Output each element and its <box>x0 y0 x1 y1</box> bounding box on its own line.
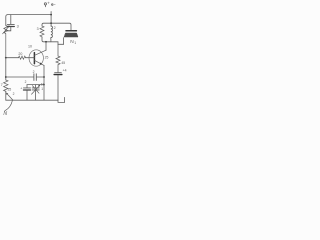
svg-text:3: 3 <box>17 25 19 29</box>
variable inductor L1 on left rail <box>4 26 8 58</box>
wire emitter bypass net <box>6 76 34 78</box>
svg-text:2: 2 <box>33 70 35 74</box>
variable capacitor C4 arrow <box>32 86 40 94</box>
svg-text:25: 25 <box>8 88 12 92</box>
wire battery negative lead <box>50 12 52 27</box>
transistor Q1 collector diagonal <box>35 50 46 55</box>
wire left rail upper <box>6 15 8 26</box>
svg-text:+: + <box>20 86 22 90</box>
capacitor C1 plates <box>7 23 14 25</box>
resistor R3 inline base <box>19 56 26 59</box>
arrow of variable L1 <box>3 27 9 34</box>
wire collector top net <box>42 23 71 30</box>
svg-text:2: 2 <box>13 92 15 96</box>
svg-text:+4: +4 <box>63 68 67 72</box>
junction battery to net <box>50 22 52 24</box>
battery - terminal <box>52 4 54 6</box>
label minus sign <box>53 4 56 6</box>
svg-text:7: 7 <box>1 83 3 87</box>
svg-text:25: 25 <box>45 56 49 60</box>
earphone N1 top bar <box>66 30 76 32</box>
wire bottom rail <box>6 99 58 101</box>
svg-text:45: 45 <box>61 61 65 65</box>
variable capacitor C4 top lead <box>35 85 37 88</box>
svg-text:10: 10 <box>28 45 32 49</box>
wire C1 bottom lead <box>6 27 11 31</box>
svg-text:N: N <box>3 111 7 117</box>
inductor L2 coil <box>51 26 53 40</box>
wire base line <box>6 57 19 59</box>
capacitor C3 electrolytic top lead <box>26 85 28 88</box>
earphone N1 body <box>64 33 78 37</box>
wire earth curve <box>5 100 13 110</box>
transistor Q1 emitter diagonal <box>35 60 44 65</box>
wire left rail middle <box>5 58 7 80</box>
wire capacitor C1 stub from rail <box>10 15 12 24</box>
transistor Q1 emitter arrow <box>40 62 43 64</box>
resistor R4 on left rail <box>4 80 8 91</box>
svg-text:10: 10 <box>41 82 45 86</box>
junction emitter net2 <box>43 84 45 86</box>
junction rail end <box>50 14 52 16</box>
wire top rail <box>8 14 51 16</box>
resistor R2 collector branch <box>56 44 60 72</box>
capacitor C3 plates <box>24 87 31 89</box>
capacitor C5 bottom lead <box>57 75 59 100</box>
wire bottom hook <box>58 97 65 102</box>
junction emitter-bypass <box>43 76 45 78</box>
resistor R1 <box>40 26 44 37</box>
wire L2 bottom tie <box>50 40 52 42</box>
junction rail-bypass <box>5 76 7 78</box>
wire collector stub <box>45 42 47 51</box>
capacitor C3 bottom lead <box>26 91 28 101</box>
variable capacitor C4 bottom lead <box>35 90 37 100</box>
svg-text:+: + <box>47 1 50 6</box>
junction base-rail <box>5 57 7 59</box>
wire bypass net right <box>36 76 44 78</box>
svg-text:2: 2 <box>54 26 56 30</box>
variable capacitor C4 hatch diagonal <box>32 86 39 94</box>
capacitor C2 inline plates <box>33 74 35 81</box>
svg-text:20: 20 <box>18 52 22 56</box>
wire base line right <box>26 57 35 59</box>
capacitor C5 plates <box>55 72 62 74</box>
potentiometer arrow <box>7 94 12 100</box>
transistor Q1 circle <box>29 50 43 66</box>
wire collector bottom net <box>42 37 64 44</box>
svg-text:1: 1 <box>41 87 43 91</box>
transistor Q1 base bar <box>33 53 35 64</box>
variable capacitor C4 plates <box>32 87 39 89</box>
svg-text:2: 2 <box>25 80 27 84</box>
junction collector <box>45 41 47 43</box>
battery + terminal <box>44 3 46 5</box>
svg-text:1: 1 <box>74 41 76 45</box>
wire emitter lead <box>43 65 45 100</box>
svg-text:3: 3 <box>37 27 39 31</box>
wire emitter net vertical2 <box>27 84 44 86</box>
wire left rail bottom <box>5 91 7 100</box>
